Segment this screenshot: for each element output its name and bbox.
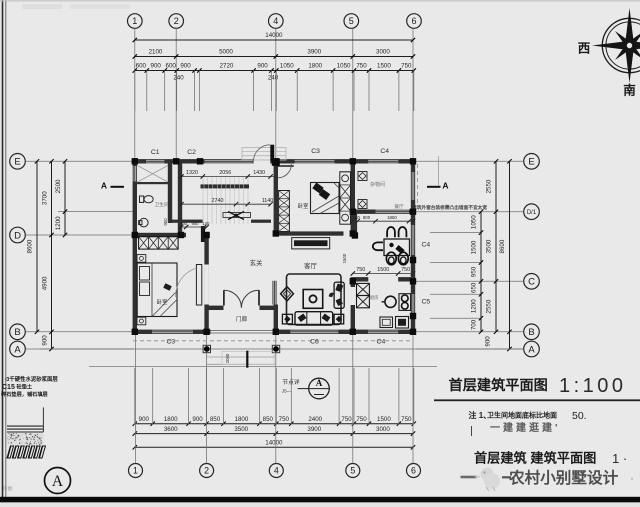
axis 2 top extension line <box>175 29 177 161</box>
wall B exterior right part <box>273 330 415 334</box>
bottom dim extension line <box>188 368 190 425</box>
wall bathroom divider <box>137 182 171 184</box>
bed3 dark cushion <box>163 283 171 290</box>
door opening double door <box>224 306 260 311</box>
porch column right <box>272 345 279 352</box>
svg-text:卧室: 卧室 <box>298 202 309 210</box>
kitchen stool <box>380 317 393 328</box>
svg-text:2100: 2100 <box>149 49 163 56</box>
svg-text:1800: 1800 <box>235 416 249 423</box>
bathroom shower diagonals <box>138 166 168 183</box>
compass rose <box>602 18 640 72</box>
left sub extension line 2500/1200 <box>58 211 133 213</box>
svg-text:碎石垫层，铺石填层: 碎石垫层，铺石填层 <box>1 390 48 398</box>
svg-text:750: 750 <box>401 63 412 70</box>
axis A right extension line <box>416 348 524 350</box>
svg-text:140: 140 <box>202 221 210 226</box>
rear door arc <box>254 145 271 161</box>
svg-text:2720: 2720 <box>220 63 234 70</box>
svg-text:一建建逛建': 一建建逛建' <box>490 421 560 434</box>
svg-text:1500: 1500 <box>377 267 389 273</box>
axis B left extension line <box>26 331 134 333</box>
svg-text:900: 900 <box>363 215 371 220</box>
svg-text:260: 260 <box>180 221 188 226</box>
watermark dash 2 <box>502 476 511 478</box>
svg-text:B: B <box>14 327 20 338</box>
col D-4 <box>273 230 279 236</box>
bottom dim line row1 <box>135 423 413 425</box>
svg-text:C2: C2 <box>187 149 196 156</box>
wardrobe bedroom3 <box>139 237 179 250</box>
column tall at D door <box>201 226 205 242</box>
svg-text:卫生间: 卫生间 <box>155 201 169 208</box>
left dim line 8600 <box>36 161 38 331</box>
bed2 quilt lines <box>312 196 339 212</box>
top dim extension line <box>275 71 277 112</box>
window C5 east <box>411 294 415 318</box>
svg-text:3900: 3900 <box>307 49 321 56</box>
svg-text:C1: C1 <box>151 149 160 156</box>
svg-text:750: 750 <box>401 267 410 273</box>
svg-text:审图: 审图 <box>3 485 13 492</box>
col E-5 <box>350 158 356 164</box>
col B-5 <box>350 329 356 335</box>
wall foyer/porch <box>205 306 277 310</box>
stair treads <box>202 178 204 225</box>
svg-text:1800: 1800 <box>164 416 178 423</box>
axis C right extension line <box>416 280 524 282</box>
living sofa <box>295 312 333 325</box>
svg-text:西: 西 <box>578 42 591 56</box>
svg-text:650: 650 <box>471 282 478 293</box>
kitchen sink <box>385 296 396 307</box>
axis circle 1 bottom <box>129 464 143 478</box>
svg-text:C4: C4 <box>422 242 431 249</box>
svg-text:厨房: 厨房 <box>370 294 379 301</box>
svg-text:1200: 1200 <box>55 216 62 230</box>
svg-text:900: 900 <box>257 63 268 70</box>
nightstand bottom <box>137 317 146 325</box>
left dim line 2500/1200 <box>64 161 66 235</box>
svg-text:建筑外窗台装修需凸出墙面不宜太宽: 建筑外窗台装修需凸出墙面不宜太宽 <box>412 204 487 211</box>
axis circle A left <box>10 341 26 357</box>
svg-text:900: 900 <box>139 416 150 423</box>
foyer dim line <box>181 226 207 228</box>
storage dim line <box>353 220 413 222</box>
top dim extension line <box>146 71 148 112</box>
axis bottom extension line <box>352 334 354 463</box>
right sub extension line <box>430 293 481 295</box>
svg-text:750: 750 <box>279 416 290 423</box>
dining chair top-left <box>387 227 395 237</box>
kitchen fridge cabinets <box>357 283 370 295</box>
bottom dim extension line <box>152 368 154 425</box>
dining chair bottom-left <box>386 252 396 265</box>
storage flower box 2 <box>358 200 367 209</box>
svg-text:2550: 2550 <box>486 179 493 193</box>
svg-text:杂物间: 杂物间 <box>370 181 385 188</box>
bottom dim extension line <box>275 368 277 425</box>
svg-text:14000: 14000 <box>265 32 283 39</box>
bottom dim extension line <box>290 368 292 425</box>
living tv unit <box>334 282 344 308</box>
wall axis5 vertical (bedroom right) <box>351 161 355 235</box>
double door leaves <box>223 290 225 305</box>
wall bathroom right vertical <box>168 161 172 223</box>
svg-text:3000: 3000 <box>376 49 390 56</box>
svg-text:8600: 8600 <box>499 239 506 253</box>
wall D stub at bedroom door <box>204 233 209 237</box>
top dim extension line <box>271 71 273 112</box>
axis circle 4 bottom <box>269 464 283 478</box>
svg-text:5: 5 <box>349 16 354 26</box>
svg-text:砼垫土: 砼垫土 <box>17 382 33 390</box>
kitchen dim line <box>353 273 413 275</box>
svg-text:1050: 1050 <box>471 215 478 229</box>
svg-text:950: 950 <box>471 266 478 277</box>
svg-text:卧室: 卧室 <box>157 298 168 306</box>
svg-text:4: 4 <box>274 466 279 476</box>
svg-text:240: 240 <box>268 75 279 82</box>
top dim extension line <box>253 71 255 112</box>
svg-text:850: 850 <box>263 416 274 423</box>
bed bedroom3 <box>137 263 177 317</box>
axis circle 5 top <box>344 14 359 29</box>
axis circle B left <box>10 324 26 340</box>
col B-1 <box>132 329 138 335</box>
door opening bedroom2 <box>204 265 209 305</box>
right sub extension line <box>430 262 481 264</box>
window C6 in B wall <box>290 330 338 334</box>
axis circle E left <box>10 154 26 170</box>
double door arcs <box>224 290 242 307</box>
svg-text:5000: 5000 <box>219 49 233 56</box>
svg-text:E: E <box>528 157 534 168</box>
svg-text:600: 600 <box>136 63 147 70</box>
svg-text:1:100: 1:100 <box>559 375 627 397</box>
top dim extension line <box>194 71 196 112</box>
porch open edge at B <box>211 330 273 332</box>
closet right of bedroom2 <box>340 172 351 224</box>
svg-text:C4: C4 <box>377 338 386 345</box>
axis circle A right <box>524 341 540 357</box>
axis bottom extension line <box>275 334 277 463</box>
dining chair top-right <box>399 227 407 237</box>
bottom dim line 14000 <box>135 446 413 448</box>
right dim line col3 <box>509 161 511 349</box>
svg-text:C15: C15 <box>2 384 15 391</box>
watermark dash <box>461 476 477 479</box>
svg-text:A: A <box>316 378 323 388</box>
svg-text:900: 900 <box>151 63 162 70</box>
wall axis4 lower (porch right) <box>274 305 278 332</box>
col D-2 <box>178 232 184 238</box>
svg-text:1 ·: 1 · <box>612 451 627 466</box>
living tv fan <box>329 293 334 298</box>
svg-text:2550: 2550 <box>486 299 493 313</box>
stair dim line lower <box>182 203 271 205</box>
svg-text:750: 750 <box>356 267 365 273</box>
col D1-6 <box>410 209 416 215</box>
window 1850 in D/1 wall <box>376 210 410 214</box>
right dim line col2 <box>495 161 497 331</box>
col E-2 <box>173 158 179 164</box>
svg-text:C3: C3 <box>311 148 320 155</box>
axis circle 2 bottom <box>200 464 214 478</box>
ground detail vertical line <box>42 407 44 432</box>
svg-text:900: 900 <box>163 218 168 226</box>
axis bottom extension line <box>206 334 208 463</box>
svg-text:A: A <box>528 344 535 355</box>
toilet <box>140 196 144 202</box>
svg-text:1500: 1500 <box>377 416 391 423</box>
wall axis4 vertical top <box>274 161 278 183</box>
axis circle D/1 right <box>524 204 540 220</box>
svg-text:A: A <box>442 180 448 190</box>
svg-text:1050: 1050 <box>280 63 294 70</box>
svg-text:D: D <box>14 230 21 241</box>
svg-text:4: 4 <box>273 16 278 26</box>
bottom black bar <box>0 497 640 503</box>
axis 1 top extension line <box>134 29 136 161</box>
top dim extension line <box>296 71 298 112</box>
bottom dim extension line <box>398 368 400 425</box>
svg-text:14000: 14000 <box>265 440 283 447</box>
wall stub right of E4 column <box>276 165 294 167</box>
column block E4 big <box>272 158 280 166</box>
window C4 east <box>411 225 415 255</box>
ground line <box>89 365 437 367</box>
note tick mark <box>471 426 473 436</box>
svg-text:750: 750 <box>341 416 352 423</box>
top dim extension line <box>398 71 400 112</box>
svg-text:850: 850 <box>210 416 221 423</box>
axis circle 5 bottom <box>346 464 360 478</box>
col east mid2 <box>410 313 416 319</box>
svg-text:2: 2 <box>204 466 209 476</box>
svg-text:900: 900 <box>180 63 191 70</box>
dining chair left <box>373 242 383 250</box>
window band foyer-living <box>272 281 276 305</box>
svg-text:1: 1 <box>133 466 138 476</box>
ground detail stone hatch <box>7 446 14 458</box>
svg-text:5: 5 <box>350 466 355 476</box>
svg-text:750: 750 <box>401 416 412 423</box>
svg-text:南: 南 <box>623 83 636 98</box>
bottom dim extension line <box>223 368 225 425</box>
col dining left <box>352 232 358 238</box>
axis 6 top extension line <box>412 29 414 161</box>
window C3 in E wall <box>295 159 335 163</box>
bedroom3 door arc <box>175 268 196 297</box>
axis E right extension line <box>416 160 524 162</box>
svg-text:1500: 1500 <box>377 63 391 70</box>
svg-text:2740: 2740 <box>212 198 224 204</box>
axis circle B right <box>524 324 540 340</box>
svg-text:B: B <box>528 327 534 338</box>
svg-text:A: A <box>101 180 107 190</box>
axis E left extension line <box>26 160 134 162</box>
svg-text:3500: 3500 <box>486 239 493 253</box>
svg-text:客厅: 客厅 <box>304 261 317 270</box>
svg-text:1320: 1320 <box>186 170 198 176</box>
svg-text:3700: 3700 <box>42 191 49 205</box>
svg-text:1050: 1050 <box>337 63 351 70</box>
right sub extension line <box>430 232 481 234</box>
col east mid1 <box>410 257 416 263</box>
col B-2b <box>203 329 209 335</box>
svg-text:900: 900 <box>485 336 492 347</box>
watermark bird logo <box>474 468 500 492</box>
svg-text:3900: 3900 <box>307 426 321 433</box>
stair handrail band <box>201 184 250 188</box>
svg-text:D/1: D/1 <box>527 210 537 216</box>
axis circle 4 top <box>269 14 284 29</box>
top dim extension line <box>368 71 370 112</box>
svg-text:E: E <box>14 157 20 168</box>
svg-text:750: 750 <box>356 416 367 423</box>
svg-text:A: A <box>52 473 64 490</box>
svg-text:2056: 2056 <box>219 170 231 176</box>
wall under-stair <box>251 220 271 223</box>
top dim extension line <box>353 71 355 112</box>
title underline <box>434 399 640 401</box>
axis D/1 right extension line <box>416 211 524 213</box>
svg-text:50.: 50. <box>572 410 587 422</box>
top dim line row3 <box>135 70 413 72</box>
svg-text:2500: 2500 <box>55 179 62 193</box>
living armchair diamond <box>281 287 294 301</box>
ground detail concrete speckle <box>7 433 43 445</box>
svg-text:240: 240 <box>353 215 361 220</box>
svg-text:1: 1 <box>132 16 137 26</box>
right dim line col1 <box>480 212 482 332</box>
svg-text:C6: C6 <box>310 338 319 345</box>
col D-1 <box>132 232 138 238</box>
svg-text:2: 2 <box>174 16 179 26</box>
wall D/1 storage bottom <box>351 210 416 214</box>
stair dim line upper <box>182 176 276 178</box>
svg-text:2400: 2400 <box>308 416 322 423</box>
wall E exterior <box>133 159 416 163</box>
wall east exterior <box>411 159 415 334</box>
svg-text:·: · <box>630 471 634 485</box>
top faint border <box>0 0 640 2</box>
bottom dim extension line <box>258 368 260 425</box>
col B-6 <box>410 329 416 335</box>
axis bottom extension line <box>135 334 137 463</box>
nightstand top <box>137 255 146 263</box>
col E-1 <box>132 158 138 164</box>
svg-text:A: A <box>14 344 21 355</box>
ceiling fan <box>223 213 251 218</box>
svg-text:C3: C3 <box>166 338 175 345</box>
rear steps platform <box>242 148 286 161</box>
axis circle 6 bottom <box>407 464 421 478</box>
svg-text:1500: 1500 <box>471 240 478 254</box>
axis circle D left <box>10 227 26 243</box>
wall stair left vertical <box>178 161 182 235</box>
svg-text:玄关: 玄关 <box>250 258 263 267</box>
window C3 in B wall <box>152 330 193 334</box>
svg-text:240: 240 <box>173 75 184 82</box>
eave dashed line bottom <box>133 340 413 342</box>
axis circle C right <box>524 274 540 290</box>
window C1 in E wall <box>146 159 164 163</box>
svg-text:首层建筑 建筑平面图: 首层建筑 建筑平面图 <box>474 450 596 466</box>
porch column left <box>203 345 210 352</box>
bottom dim extension line <box>368 368 370 425</box>
storage flower box 1 <box>358 172 367 181</box>
top dim extension line <box>332 71 334 112</box>
window in west wall (bathroom) <box>133 166 137 182</box>
svg-text:节点详: 节点详 <box>282 378 300 386</box>
svg-text:2080: 2080 <box>225 353 230 363</box>
living corner table right <box>334 314 344 324</box>
svg-text:8600: 8600 <box>27 239 34 253</box>
axis circle 2 top <box>169 14 184 29</box>
wall bedroom2 right vertical <box>204 235 208 332</box>
wall axis4 vertical mid <box>274 184 278 234</box>
svg-text:农村小别墅设计: 农村小别墅设计 <box>508 468 619 487</box>
svg-text:门廊: 门廊 <box>236 315 248 323</box>
wall west exterior <box>133 159 137 334</box>
axis B right extension line <box>416 331 524 333</box>
bottom dim extension line <box>338 368 340 425</box>
col E-4 <box>273 158 279 164</box>
svg-text:C4: C4 <box>380 148 389 155</box>
column pier above E at axis4 <box>270 145 274 161</box>
axis circle E right <box>524 154 540 170</box>
wall B exterior left part <box>133 330 211 334</box>
detail circle A <box>45 468 71 494</box>
kitchen stove <box>399 294 411 311</box>
top dim extension line <box>134 71 136 112</box>
svg-text:1850: 1850 <box>387 215 397 220</box>
bed2 outline <box>311 183 340 214</box>
bottom dim extension line <box>206 368 208 425</box>
axis circle 1 top <box>128 14 143 29</box>
section marker A right <box>427 186 441 188</box>
svg-text:1140: 1140 <box>262 198 274 204</box>
axis 5 top extension line <box>352 29 354 161</box>
left border double line <box>2 0 4 507</box>
wall D left section <box>133 233 186 237</box>
top dim extension line <box>198 71 200 112</box>
bedroom2 door arc <box>278 164 291 178</box>
wash basin <box>140 218 149 227</box>
porch steps lines <box>207 356 276 358</box>
svg-text:首层建筑平面图: 首层建筑平面图 <box>449 377 548 394</box>
bedroom3 door leaf <box>196 265 201 306</box>
section cut bar at steps <box>246 351 248 368</box>
living corner table left <box>282 314 292 324</box>
dining chair bottom-right <box>398 252 408 265</box>
svg-text:·3千硬性水泥砂浆面层: ·3千硬性水泥砂浆面层 <box>5 375 59 383</box>
bottom dim extension line <box>134 368 136 425</box>
callout circle A <box>298 388 309 390</box>
svg-text:900: 900 <box>42 335 49 346</box>
rear door opening in E wall <box>254 159 271 164</box>
bottom dim extension line <box>413 368 415 425</box>
window C2 in E wall <box>205 159 253 163</box>
living sofa zone outline <box>287 274 342 325</box>
window east storage <box>411 172 415 200</box>
col B-4 <box>273 329 279 335</box>
col E-2b <box>197 158 203 164</box>
bed2 pillows <box>312 183 330 200</box>
svg-text:750: 750 <box>356 63 367 70</box>
